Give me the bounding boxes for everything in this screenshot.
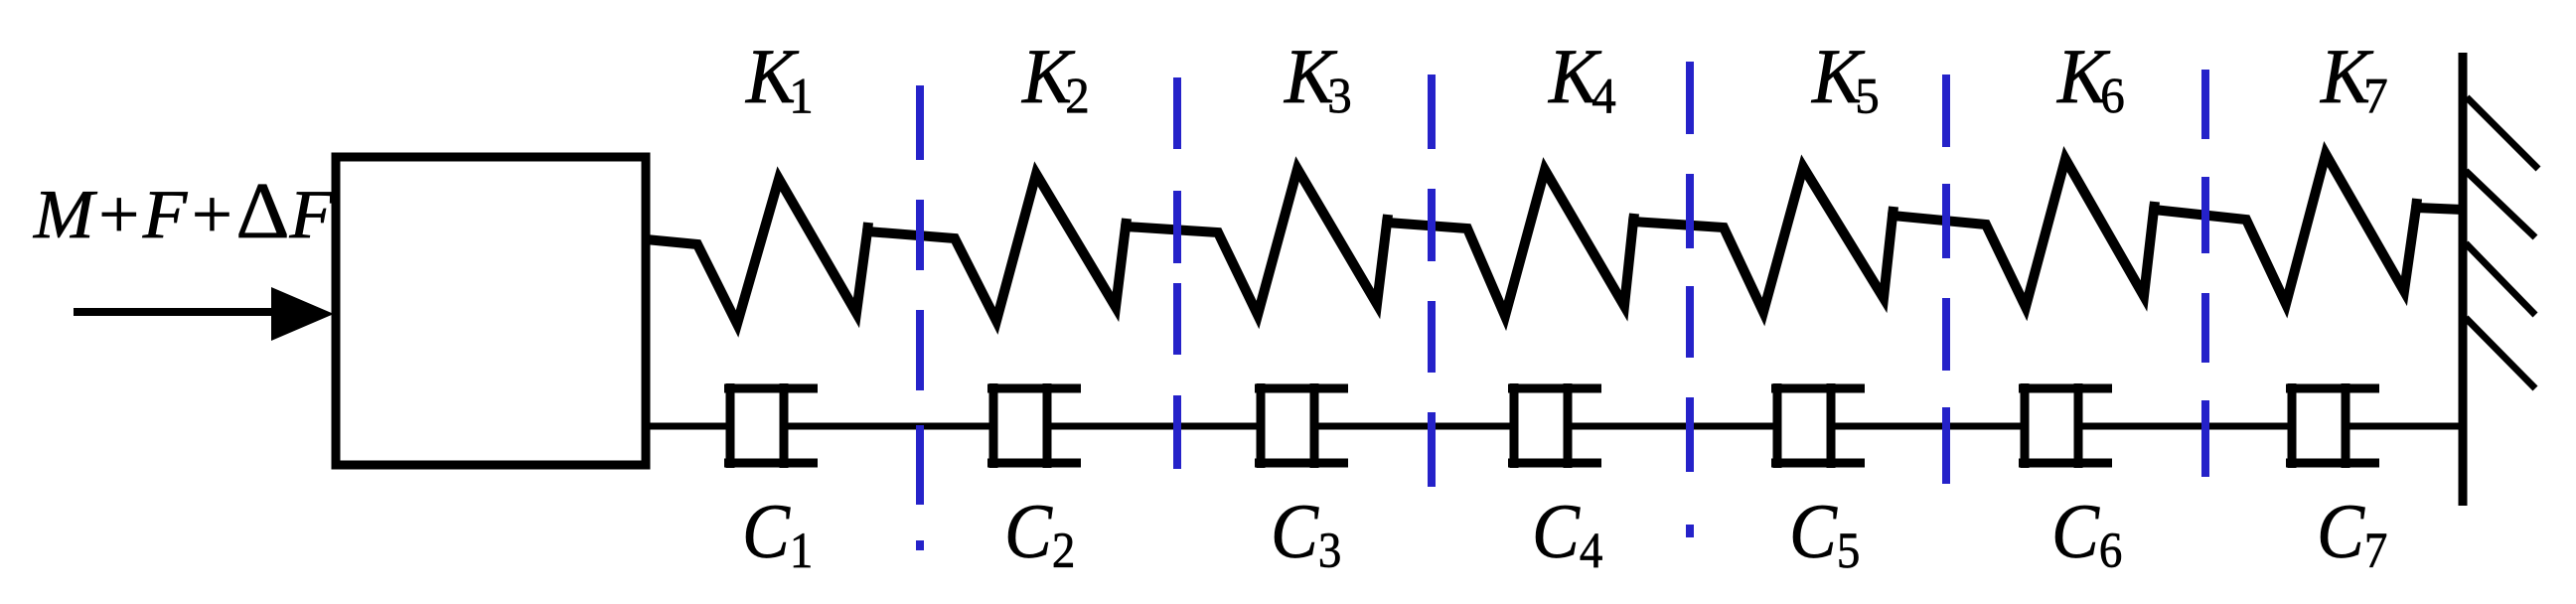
wire C4 to C5 bbox=[1568, 423, 1779, 430]
section line 1 bbox=[916, 85, 924, 550]
spring K1 bbox=[646, 179, 920, 324]
spring K3 bbox=[1177, 169, 1432, 315]
spring K2 bbox=[920, 174, 1177, 321]
wire C2 to C3 bbox=[1047, 423, 1263, 430]
svg-text:M+F+ΔF: M+F+ΔF bbox=[33, 165, 335, 254]
wall hatch 3 bbox=[2466, 243, 2535, 315]
spring K6 bbox=[1946, 159, 2205, 307]
spring K5 bbox=[1690, 167, 1946, 312]
section line 2 bbox=[1173, 77, 1181, 469]
wall hatch 1 bbox=[2467, 97, 2538, 169]
wire C5 to C6 bbox=[1831, 423, 2027, 430]
section line 4 bbox=[1686, 62, 1694, 537]
section line 3 bbox=[1428, 75, 1436, 487]
damper C1 bbox=[724, 383, 818, 468]
spring K4 bbox=[1432, 170, 1690, 316]
wire C3 to C4 bbox=[1314, 423, 1516, 430]
damper C4 bbox=[1508, 383, 1601, 468]
damper C5 bbox=[1771, 383, 1865, 468]
section line 6 bbox=[2201, 70, 2209, 477]
wall hatch 2 bbox=[2466, 171, 2535, 237]
wire C7 to wall bbox=[2346, 423, 2463, 430]
fixed wall bbox=[2459, 53, 2468, 506]
wire C6 to C7 bbox=[2078, 423, 2294, 430]
damper C3 bbox=[1255, 383, 1348, 468]
force arrow bbox=[74, 287, 334, 341]
damper C2 bbox=[987, 383, 1081, 468]
wire C1 to C2 bbox=[784, 423, 995, 430]
damper C6 bbox=[2019, 383, 2112, 468]
mass block M bbox=[336, 157, 646, 465]
wire mass block to C1 bbox=[646, 423, 732, 430]
damper C7 bbox=[2286, 383, 2379, 468]
spring K7 bbox=[2205, 154, 2463, 304]
section line 5 bbox=[1942, 75, 1950, 484]
wall hatch 4 bbox=[2466, 318, 2535, 388]
